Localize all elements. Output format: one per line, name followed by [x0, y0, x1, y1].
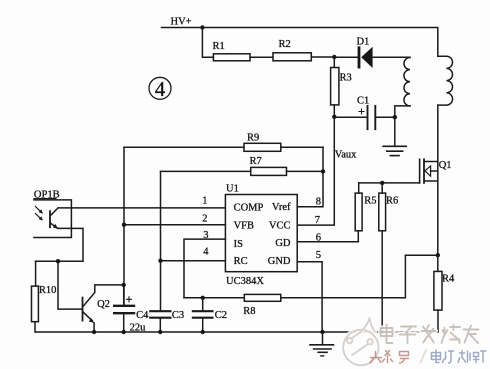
svg-text:R4: R4	[442, 274, 455, 285]
svg-text:6: 6	[316, 233, 321, 244]
svg-text:GD: GD	[275, 238, 291, 249]
svg-text:IS: IS	[234, 239, 243, 250]
svg-text:C3: C3	[172, 310, 184, 321]
svg-text:R5: R5	[364, 196, 376, 207]
svg-text:C1: C1	[357, 96, 369, 107]
svg-text:RC: RC	[234, 256, 248, 267]
svg-text:Vref: Vref	[272, 202, 291, 213]
svg-text:Q2: Q2	[97, 299, 110, 310]
svg-text:4: 4	[203, 247, 209, 258]
svg-text:R3: R3	[340, 73, 352, 84]
svg-text:R2: R2	[279, 39, 291, 50]
svg-text:D1: D1	[357, 37, 370, 48]
svg-text:22u: 22u	[130, 323, 147, 334]
svg-text:R9: R9	[247, 133, 259, 144]
svg-text:R10: R10	[39, 285, 57, 296]
svg-text:7: 7	[315, 215, 320, 226]
svg-text:U1: U1	[226, 184, 239, 195]
svg-text:Vaux: Vaux	[335, 150, 357, 161]
svg-text:UC384X: UC384X	[226, 276, 264, 287]
svg-text:R7: R7	[250, 156, 262, 167]
svg-text:R8: R8	[243, 306, 255, 317]
svg-text:5: 5	[316, 250, 321, 261]
svg-text:C2: C2	[215, 310, 227, 321]
svg-text:2: 2	[202, 213, 207, 224]
svg-text:VCC: VCC	[269, 220, 291, 231]
svg-text:Q1: Q1	[439, 160, 452, 171]
svg-text:R1: R1	[213, 41, 225, 52]
svg-text:VFB: VFB	[234, 220, 254, 231]
svg-text:4: 4	[155, 77, 166, 101]
svg-text:HV+: HV+	[171, 17, 192, 28]
svg-text:1: 1	[202, 196, 207, 207]
svg-text:C4: C4	[136, 310, 149, 321]
svg-text:R6: R6	[386, 196, 398, 207]
svg-text:GND: GND	[268, 256, 291, 267]
svg-text:3: 3	[203, 230, 208, 241]
svg-text:OP1B: OP1B	[34, 189, 60, 200]
svg-text:8: 8	[316, 197, 321, 208]
svg-text:COMP: COMP	[234, 203, 264, 214]
